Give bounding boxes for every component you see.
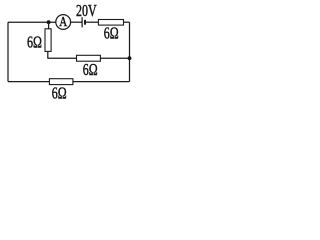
battery (cell) — [82, 17, 85, 27]
resistor R2 (vertical, 6Ω) — [45, 29, 51, 52]
resistor R4 (bottom, 6Ω) — [49, 79, 73, 85]
ammeter A — [56, 14, 71, 30]
wire top-left segment (node A to junction) — [8, 21, 56, 23]
wire right edge (top corner to bottom corner) — [129, 22, 131, 81]
svg-text:20V: 20V — [76, 2, 97, 20]
wire ammeter to battery — [71, 21, 82, 23]
wire left edge — [7, 22, 9, 81]
wire R3 to right junction — [100, 57, 129, 59]
wire R1 to top-right corner — [124, 21, 130, 23]
wire R2 bottom lead and across to R3 — [47, 51, 76, 58]
wire bottom-right segment — [73, 81, 130, 83]
resistor R1 (top, 6Ω) — [98, 20, 123, 26]
svg-text:A: A — [59, 14, 68, 30]
svg-text:6Ω: 6Ω — [52, 85, 67, 100]
junction dot (top node) — [47, 20, 51, 24]
junction dot (right node) — [128, 56, 132, 60]
resistor R3 (middle, 6Ω) — [77, 55, 101, 61]
svg-text:6Ω: 6Ω — [83, 61, 98, 79]
svg-text:6Ω: 6Ω — [27, 34, 42, 52]
wire junction to resistor R2 (vertical lead) — [48, 22, 50, 29]
wire battery to resistor R1 — [86, 21, 99, 23]
svg-text:6Ω: 6Ω — [104, 25, 119, 43]
wire bottom-left segment — [8, 81, 49, 83]
